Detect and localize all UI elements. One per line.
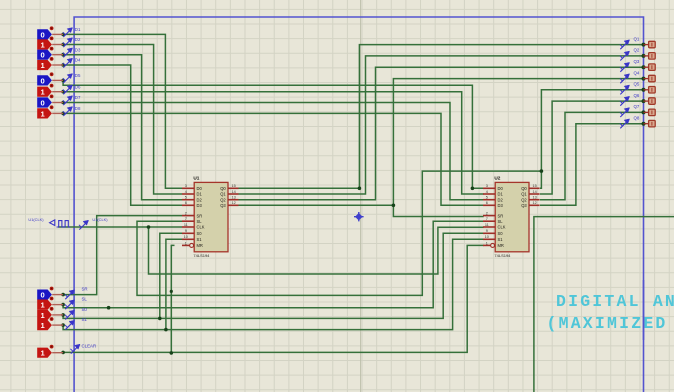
probe tag U1(CLK) [79,220,89,229]
probe tag Q3 [620,62,630,71]
svg-text:(MAXIMIZED: (MAXIMIZED [547,314,668,333]
svg-text:Q2: Q2 [634,48,640,53]
LED indicator 8 [644,123,649,125]
probe tag Q1 [620,40,630,49]
svg-text:Q1: Q1 [634,36,640,41]
probe tag D1 [63,28,73,37]
U1 pin 12 (Q3) [228,204,239,206]
svg-text:Q2: Q2 [220,197,226,202]
U2 pin 10 (S1) [483,238,495,240]
U2 pin 5 (D2) [483,199,495,201]
svg-text:D3: D3 [75,47,81,52]
svg-text:S1: S1 [197,237,203,242]
wire net SL (SL switch to U2 pin SL) [63,221,484,308]
LED indicator 7 [644,111,649,113]
svg-text:Q3: Q3 [521,203,527,208]
svg-text:6: 6 [185,201,187,205]
U1 pin 6 (D3) [182,204,194,206]
svg-text:S1: S1 [82,317,88,322]
U2 pin 3 (D0) [483,187,495,189]
probe tag Q4 [620,74,630,83]
probe tag Q7 [620,108,630,117]
U1 pin 3 (D0) [182,187,194,189]
wire net D4 (to U1 pin D3) [63,65,182,205]
svg-text:11: 11 [184,223,188,227]
wire net Q7 (U2 Q2 to probe/LED 7) [540,112,644,199]
LED indicator 2 [644,55,649,57]
svg-text:1: 1 [486,241,488,245]
wire net S1 (S1 switch to U1 and U2 pin S1) [63,239,484,329]
svg-text:D1: D1 [498,192,504,197]
U2 pin 12 (Q3) [529,204,540,206]
svg-text:S0: S0 [197,231,203,236]
probe tag D8 [63,107,73,116]
svg-text:D6: D6 [75,84,81,89]
junction dots at output border [642,43,646,47]
svg-text:D2: D2 [197,197,203,202]
svg-text:13: 13 [532,196,536,200]
svg-text:7: 7 [185,217,187,221]
wire net Q8 (U2 Q3 to probe/LED 8) [540,124,644,206]
svg-text:0: 0 [40,98,44,107]
probe tag SL [65,300,75,309]
logic state switch D2 value 1 [37,39,52,49]
LED indicator 1 [644,44,649,46]
probe tag D2 [63,38,73,47]
U2 pin 1 (MR) [483,244,491,246]
logic state switch D4 value 1 [37,60,52,70]
probe tag D3 [63,48,73,57]
probe tag D4 [63,58,73,67]
IC U2 74LS194 body [495,182,529,251]
wire net S0 (S0 switch to U1 and U2 pin S0) [63,233,484,318]
logic state switch CLEAR value 1 [37,348,52,358]
svg-text:Q3: Q3 [634,59,640,64]
probe tag Q6 [620,96,630,105]
svg-text:Q5: Q5 [634,82,640,87]
svg-text:3: 3 [486,184,488,188]
U1 pin 5 (D2) [182,199,194,201]
wire net D3 (to U1 pin D2) [63,55,182,200]
LED indicator 3 [644,66,649,68]
svg-text:Q4: Q4 [634,70,640,75]
wire net Q2 (U1 Q1 to probe/LED 2) [239,56,644,194]
svg-text:2: 2 [486,212,488,216]
LED indicator 6 [644,100,649,102]
svg-text:14: 14 [231,190,235,194]
svg-text:S0: S0 [498,231,504,236]
wire net D8 (to U2 pin D3) [63,113,484,205]
svg-text:SL: SL [82,297,88,302]
svg-text:5: 5 [486,196,488,200]
svg-text:D3: D3 [197,203,203,208]
LED indicator 5 [644,89,649,91]
U2 pin 9 (S0) [483,232,495,234]
svg-text:D2: D2 [498,197,504,202]
svg-text:Q3: Q3 [220,203,226,208]
svg-text:15: 15 [532,184,536,188]
probe tag Q8 [620,119,630,128]
wire net Q6 (U2 Q1 to probe/LED 6) [540,101,644,194]
U1 pin 2 (SR) [182,215,194,217]
U2 pin 11 (CLK) [483,226,495,228]
junction dot U1.Q0 riser [358,187,362,191]
svg-text:S1: S1 [498,237,504,242]
logic state switch D3 value 0 [37,50,52,60]
U2 pin 14 (Q1) [529,193,540,195]
junction dots on input column [61,33,65,37]
U2 pin 7 (SL) [483,220,495,222]
junction dot S1 line / U1 riser [164,328,168,332]
logic state switch D8 value 1 [37,108,52,118]
svg-text:15: 15 [231,184,235,188]
svg-text:0: 0 [40,76,44,85]
svg-text:D2: D2 [75,37,81,42]
svg-text:3: 3 [185,184,187,188]
wire net SR (SR switch to U1 pin SR) [63,216,182,295]
svg-text:D1: D1 [197,192,203,197]
svg-text:7: 7 [486,217,488,221]
svg-text:SL: SL [498,219,504,224]
probe tag Q2 [620,51,630,60]
probe tag D5 [63,74,73,83]
svg-text:10: 10 [184,235,188,239]
svg-text:SL: SL [197,219,203,224]
U1 pin 4 (D1) [182,193,194,195]
U2 pin 15 (Q0) [529,187,540,189]
svg-text:SR: SR [82,287,88,292]
probe tag CLEAR [70,344,80,353]
junction dot CLEAR line / U1 riser [170,351,174,355]
svg-text:Q8: Q8 [634,115,640,120]
svg-text:12: 12 [231,201,235,205]
U2 pin 4 (D1) [483,193,495,195]
svg-text:12: 12 [532,201,536,205]
svg-text:CLK: CLK [498,225,506,230]
svg-text:CLEAR: CLEAR [82,343,97,348]
svg-text:CLK: CLK [197,225,205,230]
IC U1 74LS194 body [194,182,228,251]
probe tag SR [65,290,75,299]
wire net Q3 (U1 Q2 to probe/LED 3) [239,67,644,200]
wire net D7 (to U2 pin D2) [63,103,484,200]
svg-text:9: 9 [486,229,488,233]
wire net off-sheet (right/bottom partial net) [534,217,674,392]
svg-text:5: 5 [185,196,187,200]
logic state switch D7 value 0 [37,97,52,107]
probe tag S1 [65,320,75,329]
svg-text:0: 0 [40,51,44,60]
svg-text:9: 9 [185,229,187,233]
svg-text:11: 11 [485,223,489,227]
svg-text:U1(CLK): U1(CLK) [92,217,108,222]
svg-text:D7: D7 [75,95,81,100]
svg-text:SR: SR [197,213,203,218]
U1 pin 13 (Q2) [228,199,239,201]
svg-text:Q0: Q0 [220,186,226,191]
U1 pin 1 (MR) [182,244,190,246]
junction dot U2.D0 riser [471,187,475,191]
svg-text:MR: MR [197,243,203,248]
logic state switch SR value 0 [37,290,52,300]
svg-text:Q0: Q0 [521,186,527,191]
wire net D6 (to U2 pin D1) [63,92,484,194]
svg-text:D1: D1 [75,27,81,32]
svg-text:Q7: Q7 [634,104,640,109]
svg-text:4: 4 [486,190,488,194]
LED indicator 4 [644,78,649,80]
wire net Q4 (U1 Q3 to probe/LED 4 and U2 SR) [239,79,644,206]
svg-text:0: 0 [40,30,44,39]
svg-text:D3: D3 [498,203,504,208]
junction dot on feedback line at MR riser [170,290,173,293]
U1 pin 10 (S1) [182,238,194,240]
logic state switch SL value 1 [37,300,52,310]
U2 pin 13 (Q2) [529,199,540,201]
svg-text:D5: D5 [75,73,81,78]
junction dot U1.Q3 riser [392,204,396,208]
probe tag S0 [65,310,75,319]
junction dot CLK line / U1 riser [147,225,151,229]
svg-text:Q1: Q1 [220,192,226,197]
wire net D5 (to U2 pin D0) [63,80,484,188]
wire net Q5 (U2 Q0 to probe/LED 5 and feedback to U1 SL) [540,90,644,189]
svg-text:Q2: Q2 [521,197,527,202]
junction dot on SL line [107,306,111,310]
svg-text:0: 0 [40,291,44,300]
wire net CLK (clock to U1 and U2 pin CLK) [58,226,182,228]
svg-text:SR: SR [498,213,504,218]
svg-text:D4: D4 [75,58,81,63]
U2 pin 2 (SR) [483,215,495,217]
svg-text:13: 13 [231,196,235,200]
U1 pin 14 (Q1) [228,193,239,195]
svg-text:D8: D8 [75,106,81,111]
svg-text:U1: U1 [193,175,199,180]
svg-text:D0: D0 [498,186,504,191]
svg-text:D0: D0 [197,186,203,191]
logic state switch S0 value 1 [37,310,52,320]
svg-text:1: 1 [185,241,187,245]
junction dot U2.Q0 riser [540,169,544,173]
svg-text:U2: U2 [494,175,500,180]
svg-text:74LS194: 74LS194 [193,253,210,258]
svg-text:14: 14 [532,190,536,194]
svg-text:DIGITAL AN: DIGITAL AN [556,292,674,311]
svg-text:Q6: Q6 [634,93,640,98]
svg-text:4: 4 [185,190,187,194]
svg-text:10: 10 [485,235,489,239]
U1 pin 9 (S0) [182,232,194,234]
svg-text:U1(CLK): U1(CLK) [28,217,44,222]
svg-text:2: 2 [185,212,187,216]
origin marker [355,213,363,221]
svg-text:S0: S0 [82,307,88,312]
junction dot S0 line / U1 riser [158,317,162,321]
svg-text:6: 6 [486,201,488,205]
probe tag D6 [63,85,73,94]
wire net Q1 (U1 Q0 to probe/LED 1) [239,45,644,189]
logic state switch S1 value 1 [37,320,52,330]
probe tag Q5 [620,85,630,94]
probe tag D7 [63,96,73,105]
U1 pin 7 (SL) [182,220,194,222]
U1 pin 15 (Q0) [228,187,239,189]
svg-text:Q1: Q1 [521,192,527,197]
svg-text:MR: MR [498,243,504,248]
U1 pin 11 (CLK) [182,226,194,228]
U2 pin 6 (D3) [483,204,495,206]
sheet border right overlay [643,280,645,340]
svg-text:74LS194: 74LS194 [494,253,511,258]
wire net D1 (D1 input to U1 pin D0) [63,34,182,188]
wire net CLEAR (to U1 and U2 pin MR) [63,245,484,352]
clock generator U1(CLK) [50,220,71,227]
logic state switch D1 value 0 [37,29,52,39]
logic state switch D5 value 0 [37,75,52,85]
wire net D2 (to U1 pin D1) [63,45,182,195]
logic state switch D6 value 1 [37,87,52,97]
